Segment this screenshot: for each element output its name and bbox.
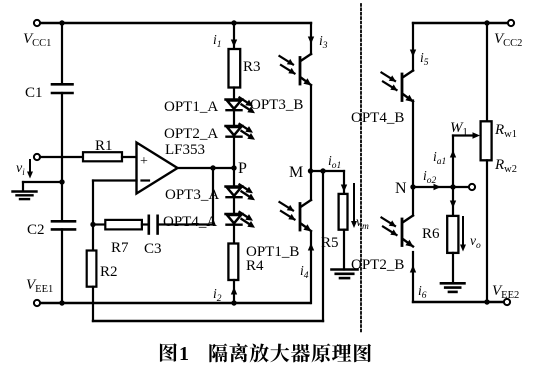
svg-text:Rw1: Rw1	[494, 122, 517, 140]
wire bottom rail Vee1	[37, 302, 311, 304]
wire down to R5 with arrow	[343, 171, 345, 194]
wire OPT3_B emitter to M	[310, 86, 312, 171]
label vo with arrow	[462, 217, 464, 246]
node feedback tap	[210, 165, 215, 170]
current i1 arrow	[231, 40, 237, 48]
svg-text:OPT3_B: OPT3_B	[250, 97, 303, 113]
wire R4 to rail with i2 arrow	[233, 280, 235, 303]
resistor R7	[105, 220, 142, 230]
svg-text:N: N	[395, 180, 407, 197]
wire C3 to output tap	[158, 223, 213, 225]
wire C1/C2 column	[61, 23, 63, 84]
wire feedback bottom rail to M	[93, 320, 323, 322]
wire top supply rail Vcc1	[37, 22, 311, 24]
svg-text:VCC2: VCC2	[494, 31, 522, 49]
wire R7 to C3	[142, 223, 149, 225]
resistor R4	[228, 244, 238, 281]
label vm with arrow	[353, 184, 355, 223]
wire ground link	[23, 181, 62, 183]
wire R6 branch with arrow	[452, 187, 454, 216]
svg-text:vo: vo	[470, 233, 481, 251]
svg-text:OPT1_A: OPT1_A	[164, 99, 218, 115]
svg-text:R2: R2	[100, 264, 118, 280]
svg-text:M: M	[289, 164, 303, 181]
node junction Rw bottom	[484, 299, 489, 304]
LED OPT3_A	[226, 185, 243, 187]
svg-text:P: P	[238, 160, 247, 177]
svg-text:VEE2: VEE2	[492, 283, 519, 301]
wire op-amp output to P	[178, 167, 235, 169]
LED OPT2_A	[226, 125, 243, 127]
wire N row to output terminal with io2 arrow	[413, 186, 472, 188]
node junction R6/wiper	[450, 184, 455, 189]
svg-text:OPT4_B: OPT4_B	[351, 110, 404, 126]
caption figure title	[160, 343, 371, 365]
wire OPT4_A to R4	[233, 225, 235, 244]
resistor R5	[339, 194, 348, 230]
svg-text:R4: R4	[246, 258, 264, 274]
transistor OPT1_B	[310, 171, 312, 200]
wire OPT2_B emitter down to Vee2 rail with i6 arrow	[412, 252, 414, 302]
resistor R1	[83, 152, 122, 161]
wire between LEDs	[233, 110, 235, 126]
svg-text:OPT3_A: OPT3_A	[165, 187, 219, 203]
wire C2 to bottom rail	[61, 229, 63, 303]
resistor R3	[229, 49, 241, 88]
svg-text:+: +	[140, 154, 148, 169]
svg-text:vi: vi	[16, 161, 25, 177]
node M	[308, 168, 313, 173]
svg-text:R1: R1	[95, 138, 113, 154]
wire vi to R1	[40, 156, 83, 158]
wire to R7	[93, 223, 105, 225]
svg-text:OPT2_B: OPT2_B	[351, 257, 404, 273]
transistor OPT2_B	[412, 187, 414, 216]
node junction top of C1	[59, 20, 64, 25]
wire potentiometer to Vee2 rail	[486, 160, 488, 302]
svg-text:LF353: LF353	[165, 142, 205, 158]
ground under R5	[332, 268, 358, 271]
svg-text:R6: R6	[422, 226, 440, 242]
wire LED column top	[233, 23, 235, 49]
node N	[410, 184, 415, 189]
capacitor C3	[148, 216, 151, 234]
wire R3 to OPT1_A	[233, 88, 235, 100]
transistor OPT4_B	[412, 69, 414, 71]
wire R6 to ground	[452, 253, 454, 283]
svg-text:1: 1	[179, 343, 189, 365]
wire OPT2_A to P	[233, 137, 235, 187]
svg-text:i3: i3	[319, 33, 328, 51]
node junction R3 top	[231, 20, 236, 25]
node junction C2 bottom	[59, 300, 64, 305]
wire OPT3_A to OPT4_A	[233, 197, 235, 214]
ground under R6	[441, 282, 465, 285]
wire R5 to ground	[343, 230, 345, 270]
capacitor C2	[52, 220, 75, 223]
resistor R2	[87, 251, 97, 287]
svg-text:ia1: ia1	[433, 149, 446, 167]
svg-text:i5: i5	[420, 50, 429, 68]
wire C1 to gnd junction	[61, 93, 63, 221]
svg-text:vm: vm	[356, 214, 369, 232]
terminal vi input	[34, 154, 40, 160]
svg-text:C3: C3	[144, 241, 162, 257]
svg-text:i4: i4	[300, 263, 309, 281]
resistor R6	[447, 216, 458, 253]
svg-text:i6: i6	[418, 283, 427, 301]
svg-text:R5: R5	[321, 235, 339, 251]
wire R2 to feedback rail	[92, 287, 94, 321]
transistor OPT3_B	[310, 53, 312, 55]
wire corner down to OPT4_B with i5 arrow	[412, 23, 414, 71]
wire bottom rail Vee2	[413, 301, 507, 303]
wire R1 to op-amp	[122, 156, 137, 158]
node feedback from M	[320, 168, 325, 173]
op-amp U1 LF353	[137, 143, 178, 194]
potentiometer wiper arrow W1	[453, 134, 476, 136]
svg-text:VEE1: VEE1	[26, 277, 53, 295]
svg-text:C1: C1	[25, 85, 43, 101]
wire OPT1_B emitter down to Vee1 rail with i4 arrow	[310, 232, 312, 303]
wire top supply rail Vcc2	[413, 22, 511, 24]
svg-text:R7: R7	[111, 240, 129, 256]
node junction Rw top	[484, 20, 489, 25]
potentiometer Rw1/Rw2	[481, 121, 492, 160]
node P	[231, 165, 236, 170]
terminal Vee1	[34, 300, 40, 306]
svg-text:OPT2_A: OPT2_A	[164, 126, 218, 142]
terminal Vcc2	[508, 20, 514, 26]
svg-text:OPT4_A: OPT4_A	[163, 214, 217, 230]
svg-text:i2: i2	[213, 286, 222, 304]
node feedback junction	[90, 222, 95, 227]
LED OPT4_A	[226, 213, 243, 215]
isolation barrier dotted line	[360, 4, 362, 332]
svg-text:OPT1_B: OPT1_B	[246, 244, 299, 260]
wire top rail corner down to OPT3_B with i3 arrow	[310, 23, 312, 54]
svg-text:Rw2: Rw2	[494, 157, 517, 175]
svg-text:i1: i1	[213, 32, 222, 50]
wire wiper down to N row with ia1 arrow	[452, 136, 454, 188]
wire inverting input	[93, 179, 137, 181]
svg-text:io1: io1	[328, 153, 341, 171]
wire R2 branch	[92, 225, 94, 251]
wire Vcc2 down to potentiometer	[486, 23, 488, 121]
terminal Vcc1	[34, 20, 40, 26]
capacitor C1	[52, 83, 73, 86]
terminal output	[469, 184, 475, 190]
svg-text:io2: io2	[423, 168, 437, 186]
node junction C1-C2/ground	[59, 179, 64, 184]
svg-text:VCC1: VCC1	[23, 31, 51, 49]
wire OPT4_B emitter to N	[412, 101, 414, 188]
LED OPT1_A	[226, 98, 243, 100]
ground at input	[13, 190, 37, 192]
node junction R4 bottom	[231, 300, 236, 305]
svg-text:R3: R3	[243, 59, 261, 75]
svg-text:C2: C2	[27, 222, 45, 238]
terminal Vee2	[504, 299, 510, 305]
wire M to R5 branch	[311, 170, 345, 172]
